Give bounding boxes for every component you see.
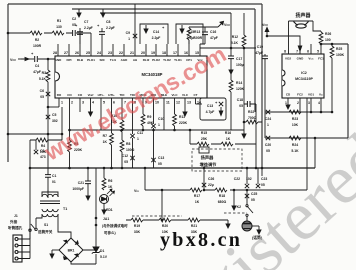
svg-text:R26: R26 [325,32,331,36]
svg-text:C10: C10 [158,117,164,121]
capacitor C19 [264,54,266,112]
resistor R14 [230,74,232,130]
capacitor C26 [203,168,205,190]
resistor R7 [110,133,114,145]
node speaker R26 junction [320,43,322,46]
svg-text:RO: RO [57,93,62,97]
svg-text:TIO: TIO [130,93,136,97]
svg-text:2.2µF: 2.2µF [152,36,161,40]
svg-text:+: + [215,100,218,105]
wire x315 drop to bus [314,138,316,168]
ground arrow bridge left [52,249,59,251]
capacitor C13b box [196,98,227,120]
switch K2 [246,190,253,221]
resistor R17 [190,188,202,192]
capacitor C11 [130,134,134,138]
svg-text:100R: 100R [33,44,42,48]
svg-text:10: 10 [155,101,159,105]
resistor R3 [47,59,49,107]
svg-text:05: 05 [239,104,243,108]
svg-text:MKI: MKI [151,93,157,97]
svg-text:1: 1 [267,123,269,127]
dashed box gain adjust [192,149,242,171]
svg-text:VLC: VLC [182,93,189,97]
svg-text:17: 17 [173,51,177,55]
svg-text:DPI: DPI [66,58,71,62]
svg-text:R6: R6 [108,179,112,183]
resistor R20 [159,218,171,222]
svg-text:R20: R20 [162,224,168,228]
resistor R13 [187,28,191,40]
svg-text:24: 24 [97,51,101,55]
svg-text:AH: AH [133,58,137,62]
svg-text:VCC: VCC [224,23,230,27]
wire speaker left lead [288,21,290,54]
capacitor C16 [204,28,206,40]
capacitor C6 [46,92,50,96]
svg-text:CP1: CP1 [186,58,192,62]
wire y220 row [126,190,228,220]
svg-text:3: 3 [308,101,310,105]
node border-left junction [7,32,10,35]
svg-text:(与外接调试电时: (与外接调试电时 [102,223,128,228]
svg-text:R22: R22 [248,110,254,114]
svg-text:220K: 220K [74,148,83,152]
svg-text:05: 05 [266,149,270,153]
svg-text:C25: C25 [251,192,257,196]
capacitor C3 [35,140,37,150]
svg-text:+: + [97,23,100,28]
LED LED1 [100,195,109,204]
svg-text:5: 5 [317,50,319,54]
capacitor C18 [244,104,256,168]
ground arrow pin13 [183,108,187,116]
capacitor C24 [266,110,270,114]
svg-text:100R: 100R [194,36,203,40]
svg-text:IC2: IC2 [301,71,307,75]
svg-text:C18: C18 [237,98,243,102]
svg-text:13: 13 [187,101,191,105]
border right edge [347,44,349,138]
svg-text:AGD: AGD [121,58,129,62]
svg-text:扬声器: 扬声器 [295,12,311,19]
svg-text:05: 05 [261,183,265,187]
border left edge [7,4,9,162]
resistor R5 [68,140,72,152]
wire vertical right frame x262 [261,4,263,168]
svg-text:25: 25 [86,51,90,55]
svg-text:扬声器: 扬声器 [201,154,214,161]
wire top rail y9 [72,8,255,10]
potentiometer R15 wiper [199,147,209,153]
svg-text:VLC: VLC [172,93,179,97]
svg-text:TLI1: TLI1 [110,58,116,62]
power Vcc arrow speaker [265,28,269,37]
svg-text:10K: 10K [111,120,118,124]
svg-text:MLE: MLE [161,93,167,97]
resistor R10 [120,120,124,132]
svg-text:1K: 1K [103,140,108,144]
svg-text:6: 6 [307,50,309,54]
svg-text:C13: C13 [207,104,213,108]
svg-text:JA1: JA1 [103,217,109,221]
svg-text:C6: C6 [40,89,44,93]
svg-text:1: 1 [158,123,160,127]
svg-text:2: 2 [71,101,73,105]
svg-text:16: 16 [184,51,188,55]
wire loop B [176,24,203,44]
resistor R12 [243,13,245,130]
svg-text:28: 28 [53,51,57,55]
wire top right speaker rail [321,43,348,45]
IC U1 bottom pin stubs [59,98,196,140]
svg-text:C8: C8 [106,20,110,24]
svg-text:C17: C17 [236,57,242,61]
svg-text:R9: R9 [147,115,151,119]
svg-text:TIO: TIO [120,93,126,97]
svg-text:TLO1: TLO1 [174,58,182,62]
wire vertical x255 [254,9,256,112]
svg-text:23: 23 [108,51,112,55]
resistor R25 [331,44,333,112]
svg-text:5: 5 [103,101,105,105]
resistor R8 [121,132,123,168]
svg-text:R4: R4 [41,144,45,148]
capacitor C22 [246,168,248,184]
wire speaker right lead [313,21,321,31]
svg-text:S1: S1 [44,223,48,227]
wire y134 left [8,107,62,140]
svg-text:130: 130 [56,25,62,29]
capacitor C10 [151,124,155,128]
svg-text:1: 1 [137,137,139,141]
capacitor C15 [180,25,184,33]
svg-text:GND: GND [55,58,63,62]
capacitor C5 [47,107,49,134]
svg-text:PLO1: PLO1 [87,58,95,62]
svg-text:22µ: 22µ [208,183,214,187]
svg-text:5.1K: 5.1K [231,41,239,45]
svg-text:C11: C11 [137,131,143,135]
capacitor C23 [258,168,262,184]
svg-text:VO2: VO2 [285,57,291,61]
arrow inside C13 box [219,107,223,116]
IC U1 top pin stubs [58,4,200,56]
svg-text:C14: C14 [153,30,159,34]
resistor R9 [141,114,145,126]
svg-text:J1: J1 [14,214,18,218]
resistor R19 [131,218,143,222]
capacitor C8 [101,9,105,17]
svg-text:05: 05 [124,160,128,164]
svg-text:Vcc: Vcc [197,58,203,62]
wire loop A [140,24,168,44]
svg-text:100µ: 100µ [236,63,244,67]
capacitor C17 [230,13,232,66]
resistor R6 [103,168,105,178]
resistor R21 [188,218,200,222]
svg-text:102: 102 [246,177,252,181]
svg-text:1K: 1K [226,137,231,141]
svg-text:C5: C5 [52,113,56,117]
resistor R24 [289,136,301,140]
border top edge [8,3,262,5]
ground arrow pin4 [89,108,93,116]
svg-text:C12: C12 [122,154,128,158]
svg-text:4.7µF: 4.7µF [206,110,215,114]
svg-text:CO: CO [67,93,72,97]
dashed box bottom resistors [132,213,247,216]
svg-text:GND: GND [297,57,305,61]
ground arrow after R18 [233,190,235,202]
svg-text:05: 05 [40,95,44,99]
svg-text:120K: 120K [236,87,245,91]
svg-text:+: + [75,23,78,28]
svg-text:9: 9 [145,101,147,105]
capacitor C14 [144,25,148,33]
svg-text:302: 302 [52,119,58,123]
svg-text:R3: R3 [42,71,46,75]
wire Vcc to pin7 [267,36,300,54]
svg-text:19: 19 [151,51,155,55]
wire Vin line y190 [145,98,307,190]
ground arrow below C17 [229,66,233,74]
svg-text:选筒开关: 选筒开关 [38,229,53,234]
svg-text:R16: R16 [225,131,231,135]
svg-text:R7: R7 [103,134,107,138]
capacitor C9 [133,34,137,38]
capacitor C13 [151,158,155,162]
svg-text:R8: R8 [126,142,130,146]
node C4 R3 junction [47,58,50,61]
svg-text:R25: R25 [336,47,342,51]
svg-text:R10: R10 [111,114,117,118]
IC U2 bottom pin stubs [288,98,321,112]
capacitor C1 [47,134,49,198]
svg-text:R2: R2 [35,38,39,42]
svg-text:R1: R1 [57,19,61,23]
svg-text:可参么): 可参么) [104,230,116,235]
svg-text:C4: C4 [35,64,39,68]
svg-text:R23: R23 [292,117,298,121]
capacitor C7 [77,9,81,17]
svg-text:8: 8 [134,101,136,105]
svg-text:100Ω: 100Ω [126,148,135,152]
svg-text:C7: C7 [84,20,88,24]
resistor R26 [320,31,322,32]
wire pin1 to C5 [48,106,59,108]
svg-text:R5: R5 [74,142,78,146]
svg-text:FC2: FC2 [297,93,303,97]
svg-text:8: 8 [284,50,286,54]
IC U2 body MC34119P [282,54,324,98]
capacitor C20 [266,136,270,140]
resistor R22 [244,121,262,123]
svg-text:SDI: SDI [99,58,104,62]
resistor R18 [215,188,227,192]
svg-text:2.2µF: 2.2µF [106,26,115,30]
wire rail R13 C16 [189,27,218,44]
svg-text:VO1: VO1 [308,93,314,97]
svg-text:TLO2: TLO2 [163,58,171,62]
svg-text:15: 15 [195,51,199,55]
svg-text:33K: 33K [134,230,141,234]
svg-text:7: 7 [124,101,126,105]
svg-text:C2: C2 [72,17,76,21]
svg-text:C22: C22 [234,177,240,181]
svg-text:C23: C23 [261,177,267,181]
IC U1 body MC34018P [55,56,207,98]
svg-text:C9: C9 [126,31,130,35]
svg-text:Vin: Vin [319,93,324,97]
svg-text:R18: R18 [219,194,225,198]
svg-text:26: 26 [75,51,79,55]
svg-text:47µF: 47µF [33,70,41,74]
svg-text:5.1K: 5.1K [291,149,299,153]
capacitor C12 [130,156,134,160]
svg-text:RLB: RLB [77,58,84,62]
svg-text:BR1: BR1 [68,249,75,253]
svg-text:外接: 外接 [9,219,18,224]
resistor R23 [289,110,301,114]
svg-text:Vin: Vin [134,189,139,193]
svg-text:HTL-: HTL- [98,93,105,97]
svg-text:700Ω: 700Ω [248,116,257,120]
svg-text:5.1V: 5.1V [100,255,108,259]
svg-text:1K: 1K [195,200,200,204]
svg-text:(话筒): (话筒) [252,235,263,240]
svg-text:C3: C3 [40,149,44,153]
svg-text:473: 473 [40,155,46,159]
svg-text:1000µF: 1000µF [72,187,84,191]
svg-text:+: + [162,25,165,30]
resistor R4 [30,140,62,168]
svg-text:VCC: VCC [308,57,314,61]
svg-text:05: 05 [251,198,255,202]
resistor R15 [197,142,209,146]
svg-text:3: 3 [82,101,84,105]
wire from left border y33 [8,33,91,44]
svg-text:R14: R14 [236,81,242,85]
svg-text:4: 4 [92,101,94,105]
wire bus y138 right [265,112,348,138]
ground arrow C21 [86,192,90,200]
svg-text:CD: CD [286,93,291,97]
resistor R1 [52,31,64,35]
transformer T1 [40,190,71,238]
svg-text:25K: 25K [201,137,208,141]
power Vcc arrow top [218,21,224,27]
svg-text:C26: C26 [208,177,214,181]
svg-text:VCC: VCC [262,23,268,27]
svg-text:MC34119P: MC34119P [295,77,313,81]
wire bus y130 [70,129,245,131]
svg-text:100: 100 [325,38,331,42]
svg-text:增益调节: 增益调节 [200,161,218,168]
ground arrow LED1 [103,204,105,207]
svg-text:MC34018P: MC34018P [142,72,163,77]
svg-text:R12: R12 [232,35,238,39]
svg-text:100K: 100K [336,53,345,57]
svg-text:R11: R11 [179,115,185,119]
svg-text:C13: C13 [158,156,164,160]
svg-text:22: 22 [119,51,123,55]
svg-text:Vref: Vref [88,93,94,97]
svg-text:HTI+: HTI+ [108,93,115,97]
speaker LS1 [289,21,314,28]
svg-text:CT: CT [194,93,198,97]
svg-text:1: 1 [285,101,287,105]
svg-text:21: 21 [130,51,134,55]
resistor R16 [221,142,233,146]
svg-text:CO: CO [78,93,83,97]
ground arrow row end [226,220,230,228]
wire y48 top right [200,47,256,49]
svg-text:R21: R21 [191,224,197,228]
svg-text:C24: C24 [265,117,271,121]
wire bus y112 right [265,111,332,113]
resistor R2 [30,31,42,35]
node R12 bottom junction [243,121,246,124]
svg-text:12: 12 [176,101,180,105]
ground arrow below R12 [242,130,246,138]
svg-text:5.1K: 5.1K [39,77,47,81]
svg-text:+: + [31,51,34,56]
wire top rail y13 [100,12,231,14]
svg-text:C19: C19 [257,45,263,49]
svg-text:R24: R24 [292,143,298,147]
svg-text:D1: D1 [100,249,104,253]
capacitor C21 electrolytic [87,168,89,192]
svg-text:T1: T1 [63,207,67,211]
svg-text:680Ω: 680Ω [218,200,227,204]
svg-text:4: 4 [318,101,320,105]
ground arrow mic [252,225,259,227]
bridge rectifier BR1 [59,238,83,262]
svg-text:听筒插孔: 听筒插孔 [8,225,23,230]
resistor R11 [173,114,177,126]
svg-text:49K: 49K [147,121,154,125]
svg-text:R15: R15 [201,131,207,135]
svg-text:220K: 220K [179,121,188,125]
svg-text:01: 01 [52,180,56,184]
svg-text:C16: C16 [210,30,216,34]
svg-text:2: 2 [297,101,299,105]
svg-text:20: 20 [141,51,145,55]
wire pin5 drop [311,44,321,54]
svg-text:R19: R19 [134,224,140,228]
svg-text:R13: R13 [194,30,200,34]
capacitor C2 [73,30,76,36]
svg-text:2.2µF: 2.2µF [84,26,93,30]
svg-text:11: 11 [166,101,170,105]
wire bridge right to D1 [71,250,96,264]
svg-text:PLO2: PLO2 [152,58,160,62]
svg-text:MCO: MCO [140,93,148,97]
svg-text:27: 27 [64,51,68,55]
svg-text:6: 6 [113,101,115,105]
svg-text:47µF: 47µF [210,36,218,40]
wire bus y168 [30,167,315,169]
svg-text:18: 18 [162,51,166,55]
wire y144 gain row [190,130,256,144]
ground arrow IC2 pin1 [286,101,290,109]
switch S1 [29,214,42,239]
svg-text:RLI2: RLI2 [143,58,150,62]
svg-text:C20: C20 [265,143,271,147]
svg-text:FC1: FC1 [318,57,324,61]
svg-text:1: 1 [128,37,130,41]
